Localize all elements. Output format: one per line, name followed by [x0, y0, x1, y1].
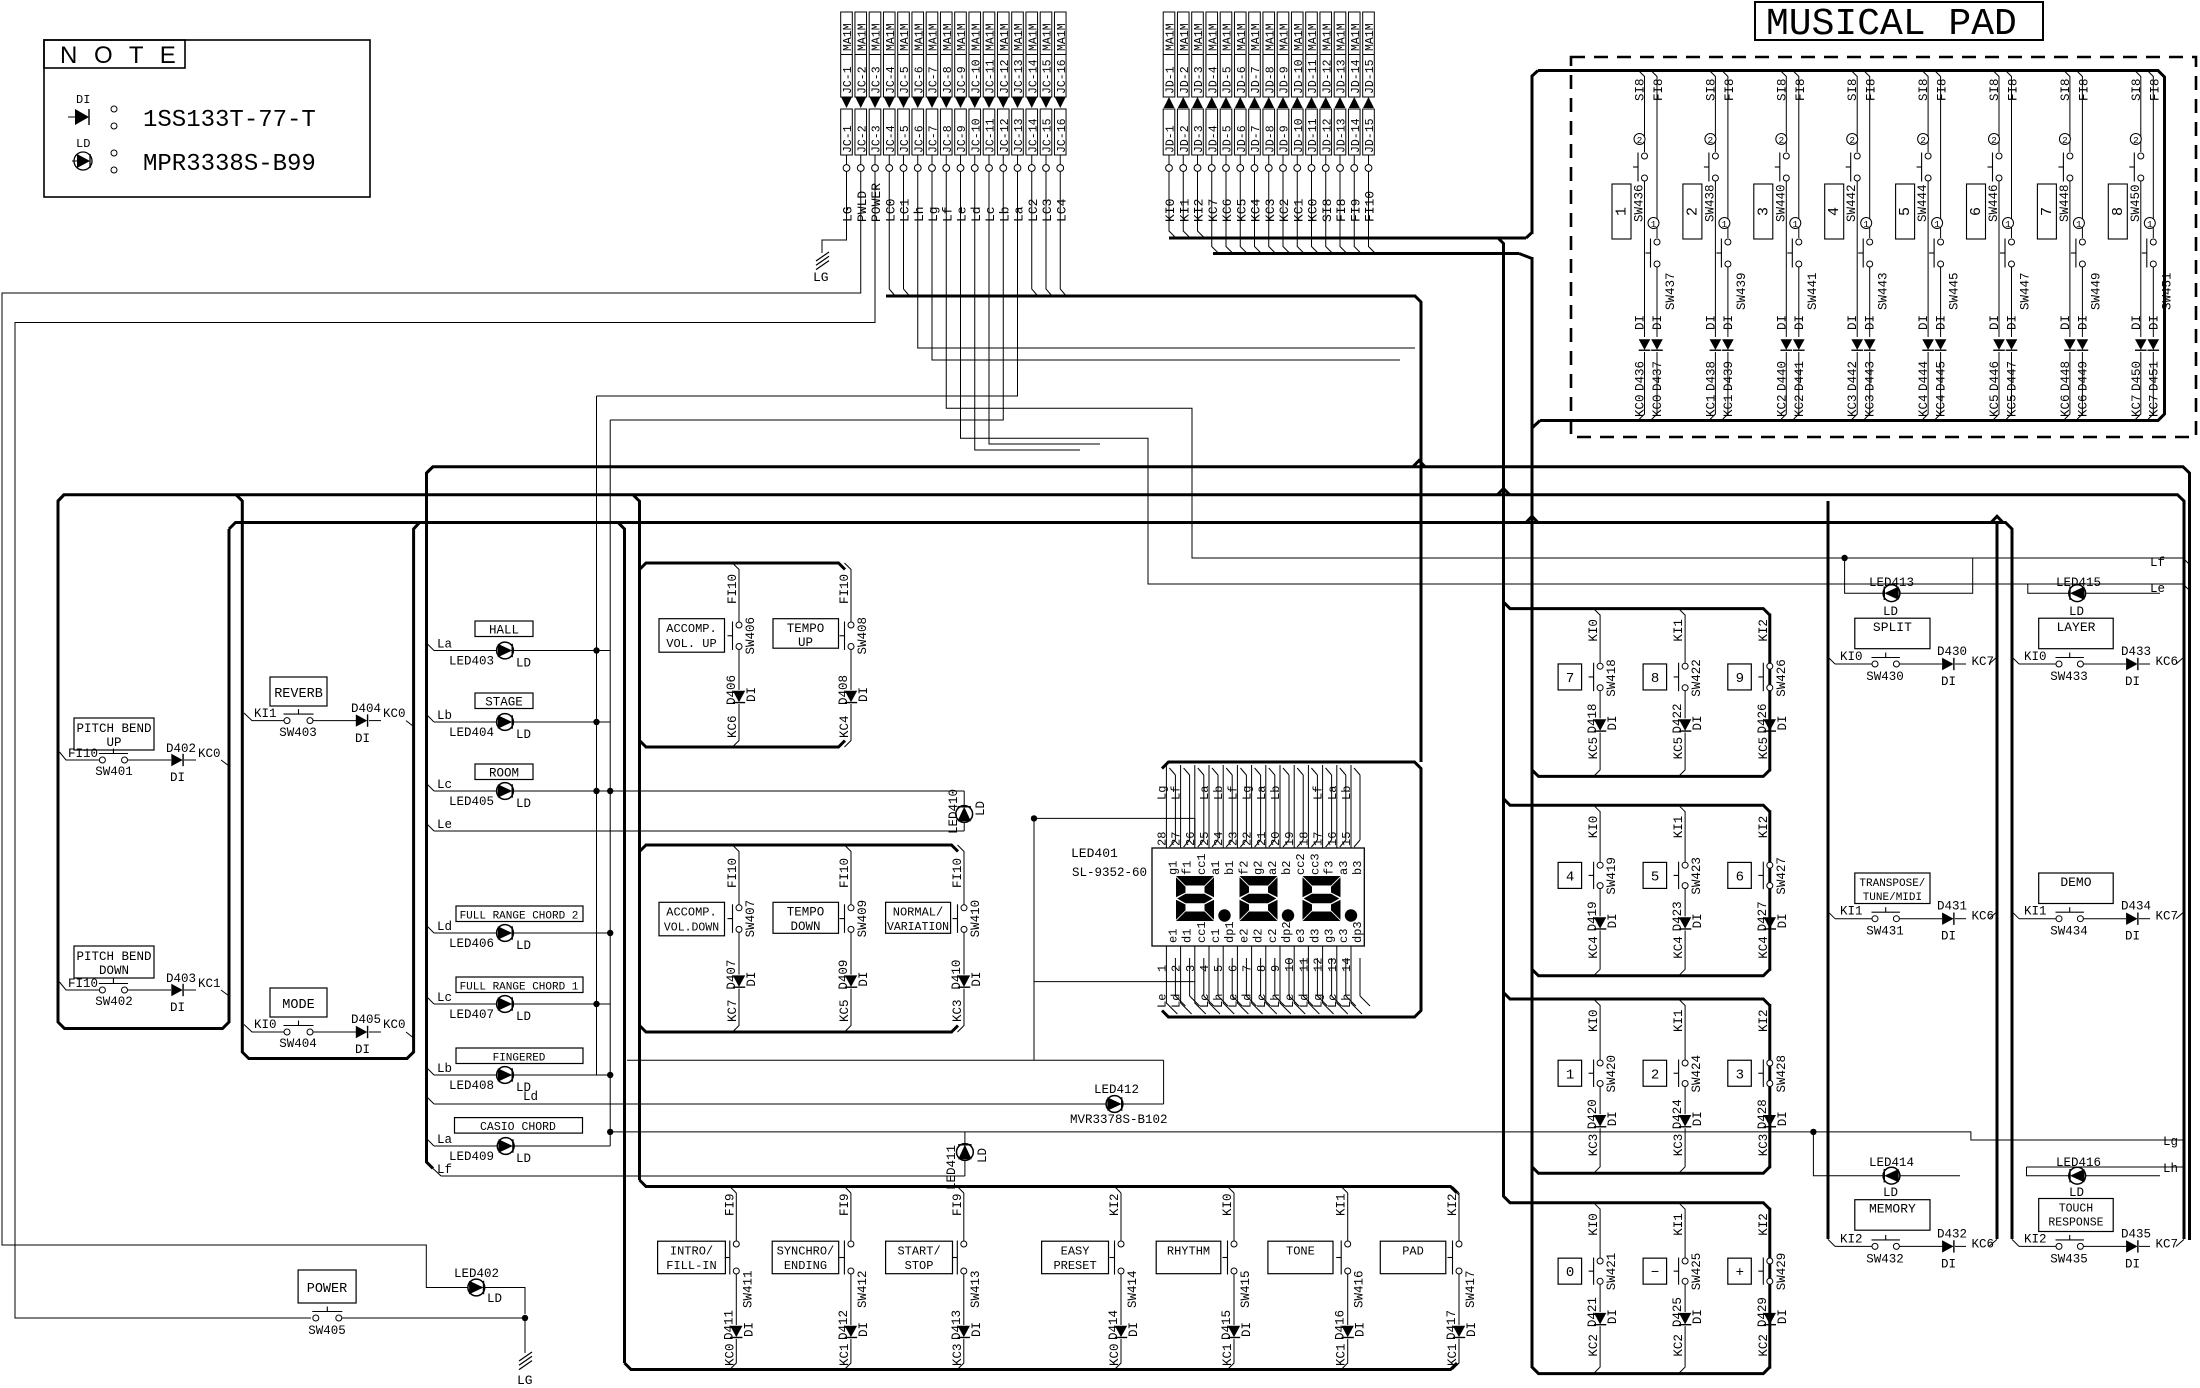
wire KC5 bottom	[1679, 733, 1686, 777]
decimal point 1	[1218, 909, 1230, 921]
svg-text:2: 2	[1778, 135, 1784, 146]
svg-text:JC-14: JC-14	[1027, 59, 1040, 94]
switch SW451	[2150, 239, 2156, 245]
diode D407	[733, 975, 745, 986]
wire KI0 keypad r1	[1594, 609, 1601, 616]
wire SW411 mid	[735, 1274, 737, 1325]
switch SW423	[1682, 862, 1688, 868]
svg-text:JC-16: JC-16	[1056, 118, 1069, 153]
svg-text:KI1: KI1	[1177, 198, 1192, 222]
switch SW415	[1231, 1241, 1237, 1247]
diode D413	[958, 1326, 970, 1337]
LED408	[434, 1074, 497, 1076]
junction dot cc1	[1031, 815, 1037, 821]
svg-text:e3: e3	[1294, 929, 1308, 943]
wire KI1 keypad r1	[1679, 609, 1686, 616]
net label Lc	[427, 784, 435, 792]
pad circled 1 cell 6	[2003, 218, 2014, 229]
switch SW422	[1682, 663, 1688, 669]
up box top edge	[640, 563, 846, 570]
display pin 9 wire	[1280, 946, 1291, 1014]
svg-text:MA1M: MA1M	[970, 23, 983, 51]
svg-text:SI8: SI8	[1320, 199, 1335, 222]
svg-text:DI: DI	[2125, 675, 2140, 689]
wire LED416 right	[2086, 1175, 2161, 1177]
vertical 1034	[1033, 818, 1035, 1060]
reverb label box	[270, 677, 327, 706]
svg-text:1: 1	[2005, 219, 2011, 230]
svg-text:KI0: KI0	[1587, 1009, 1601, 1032]
decimal point 2	[1282, 909, 1294, 921]
svg-text:PITCH BEND: PITCH BEND	[76, 950, 151, 964]
svg-text:MA1M: MA1M	[1279, 23, 1292, 51]
pad circled 2 cell 3	[1776, 134, 1787, 145]
svg-text:DI: DI	[745, 972, 759, 987]
svg-text:D409: D409	[837, 960, 851, 990]
pad circled 1 cell 1	[1648, 218, 1659, 229]
junction dot Lf LED413	[1841, 555, 1847, 561]
switch SW434	[2056, 916, 2062, 922]
wire Le run	[961, 172, 2190, 591]
wire Lh line	[2027, 1166, 2184, 1168]
connector JC-16 MA1M	[1054, 12, 1066, 97]
wire SW425 mid	[1684, 1284, 1686, 1312]
wire LED413 right	[1900, 558, 1973, 593]
svg-text:c3: c3	[1337, 929, 1351, 943]
wire La run	[597, 172, 1018, 397]
pad cell 7 wires SI8/FI8	[2064, 71, 2070, 153]
label box SW431	[1855, 873, 1930, 904]
wire KC1 bottom	[1228, 1339, 1235, 1370]
svg-text:KC7: KC7	[2156, 1237, 2179, 1251]
svg-text:JC-2: JC-2	[856, 66, 869, 94]
svg-text:Ld: Ld	[969, 206, 984, 222]
svg-text:D410: D410	[950, 960, 964, 990]
svg-text:JD-1: JD-1	[1165, 125, 1178, 153]
svg-text:PRESET: PRESET	[1053, 1259, 1096, 1273]
svg-text:3: 3	[1184, 965, 1198, 972]
pin JC-16	[1059, 155, 1061, 165]
label box SW432	[1855, 1200, 1930, 1231]
wire JD-15 to bus	[1369, 172, 1376, 254]
pad cell 6 wires SI8/FI8	[1993, 71, 1999, 153]
svg-text:FI8: FI8	[1334, 199, 1349, 222]
fillet bump V1 on YL2	[1498, 489, 1510, 495]
wire JD-4 to bus	[1212, 172, 1219, 254]
svg-text:JD-11: JD-11	[1307, 59, 1320, 94]
wire Lb run	[610, 172, 1003, 421]
wire SW430 mid	[1900, 663, 1943, 665]
LED409	[434, 1145, 498, 1147]
svg-text:KC3: KC3	[1587, 1134, 1601, 1157]
svg-text:FI8: FI8	[2077, 78, 2091, 101]
display pin 11 wire	[1308, 946, 1319, 1014]
svg-text:FI9: FI9	[951, 1193, 965, 1216]
pad cell 2 wires to bottom bus	[1709, 352, 1716, 421]
full range chord 1 row	[456, 977, 583, 993]
svg-text:KI2: KI2	[1108, 1193, 1122, 1216]
svg-text:D442: D442	[1846, 361, 1860, 391]
key box + r4	[1728, 1258, 1752, 1284]
switch SW414	[1118, 1241, 1124, 1247]
junction dot Lg LED414	[1810, 1129, 1816, 1135]
wire KC3 bottom	[1679, 1128, 1686, 1173]
wire Ld LED412 line	[427, 1097, 435, 1105]
svg-text:MA1M: MA1M	[942, 23, 955, 51]
pin JD-5	[1225, 155, 1227, 165]
svg-text:JC-3: JC-3	[871, 125, 884, 153]
svg-text:D448: D448	[2059, 361, 2073, 391]
svg-text:Lg: Lg	[1155, 786, 1169, 800]
svg-text:TUNE/MIDI: TUNE/MIDI	[1863, 892, 1922, 904]
pad number box 8	[2108, 184, 2127, 239]
svg-text:SW408: SW408	[856, 617, 870, 655]
svg-text:KC0: KC0	[1108, 1343, 1122, 1366]
wire KC6 bottom	[733, 704, 740, 747]
pad circled 1 cell 3	[1790, 218, 1801, 229]
label box SW412	[772, 1241, 839, 1274]
power label box	[298, 1270, 356, 1303]
wire LED414 right	[1900, 1175, 1960, 1177]
pitch bend down label box	[74, 946, 154, 978]
keypad box 2 right edge	[1768, 810, 1771, 971]
pad circled 2 cell 4	[1847, 134, 1858, 145]
pin JD-12	[1325, 155, 1327, 165]
svg-text:KI1: KI1	[1672, 1009, 1686, 1032]
svg-text:KI0: KI0	[2024, 650, 2047, 664]
svg-text:FULL RANGE CHORD 1: FULL RANGE CHORD 1	[460, 982, 579, 994]
wire KC5 bottom	[845, 989, 852, 1032]
pad circled 1 cell 7	[2073, 218, 2084, 229]
wire SW419 mid	[1599, 889, 1601, 917]
connector JC-6 MA1M	[912, 12, 924, 97]
svg-text:SW429: SW429	[1775, 1253, 1789, 1291]
svg-text:SI8: SI8	[2130, 78, 2144, 101]
svg-text:SW427: SW427	[1775, 857, 1789, 895]
wire KI0 SW430	[1828, 657, 1835, 664]
pad number box 5	[1896, 184, 1915, 239]
svg-text:b3: b3	[1351, 861, 1365, 875]
svg-text:Lh: Lh	[2163, 1162, 2178, 1176]
svg-text:Lc: Lc	[1198, 994, 1212, 1008]
svg-text:11: 11	[1297, 958, 1311, 972]
keypad box 3 top edge	[1504, 993, 1770, 1006]
room row	[475, 764, 533, 780]
svg-text:SW415: SW415	[1239, 1270, 1253, 1308]
svg-text:JC-10: JC-10	[970, 59, 983, 94]
svg-text:D431: D431	[1937, 900, 1967, 914]
connector JD-10 MA1M	[1291, 12, 1303, 97]
svg-text:KC1: KC1	[198, 977, 221, 991]
svg-text:TRANSPOSE/: TRANSPOSE/	[1859, 878, 1925, 890]
net label Lc	[427, 997, 435, 1005]
pad circled 1 cell 8	[2144, 218, 2155, 229]
svg-text:KC0: KC0	[1651, 394, 1665, 417]
junction dot power	[522, 1315, 528, 1321]
svg-text:D438: D438	[1704, 361, 1718, 391]
svg-text:KC4: KC4	[1917, 394, 1931, 417]
svg-text:LG: LG	[841, 206, 856, 222]
wire LED415 left	[2028, 584, 2069, 593]
svg-text:POWER: POWER	[307, 1282, 348, 1297]
wire SW409 mid	[850, 932, 852, 974]
svg-text:KC1: KC1	[1704, 394, 1718, 417]
switch SW439	[1725, 239, 1731, 245]
svg-text:KC3: KC3	[1263, 199, 1278, 222]
svg-text:SW439: SW439	[1735, 272, 1749, 310]
svg-text:D422: D422	[1671, 703, 1685, 733]
svg-text:KC4: KC4	[1672, 936, 1686, 959]
svg-text:19: 19	[1283, 832, 1297, 846]
wire KI2 SW414	[1115, 1187, 1122, 1194]
svg-text:D421: D421	[1586, 1297, 1600, 1327]
svg-text:KC2: KC2	[1757, 1334, 1771, 1357]
wire JD-10 to bus	[1297, 172, 1304, 254]
svg-text:27: 27	[1170, 832, 1184, 846]
svg-text:MA1M: MA1M	[1307, 23, 1320, 51]
wire KC3 bottom	[957, 1339, 964, 1370]
svg-text:LD: LD	[516, 1152, 531, 1166]
svg-text:KC5: KC5	[1587, 737, 1601, 760]
svg-text:DI: DI	[1606, 1111, 1620, 1126]
svg-text:8: 8	[1651, 671, 1659, 687]
bus YL3	[229, 523, 2012, 1240]
wire JD-3 to bus	[1198, 172, 1205, 239]
wire KI0 SW433	[2012, 657, 2019, 664]
svg-text:cc2: cc2	[1294, 853, 1308, 875]
svg-text:KC3: KC3	[1864, 394, 1878, 417]
connector JC-1 MA1M	[841, 12, 853, 97]
wire KC3 bottom	[958, 989, 965, 1032]
key box 5 r2	[1643, 862, 1667, 888]
pin JC-13	[1017, 155, 1019, 165]
net label Lb	[427, 715, 435, 723]
diode D429	[1764, 1313, 1776, 1324]
wire SW409 top	[845, 845, 852, 905]
svg-text:DI: DI	[2125, 1257, 2140, 1271]
label box SW414	[1042, 1241, 1109, 1274]
pad circled 2 cell 1	[1634, 134, 1645, 145]
wire SW420 mid	[1599, 1087, 1601, 1115]
svg-text:8: 8	[1255, 965, 1269, 972]
svg-text:KC6: KC6	[2156, 655, 2179, 669]
bus V1 vertical	[1502, 243, 1505, 1197]
svg-text:Le: Le	[437, 818, 452, 832]
svg-text:JC-11: JC-11	[985, 59, 998, 94]
svg-text:JD-13: JD-13	[1336, 59, 1349, 94]
svg-text:DI: DI	[2130, 315, 2144, 330]
pin JC-6	[917, 155, 919, 165]
svg-text:DI: DI	[1240, 1322, 1254, 1337]
switch SW404	[284, 1029, 290, 1035]
svg-text:D414: D414	[1107, 1310, 1121, 1340]
svg-text:SI8: SI8	[1988, 78, 2002, 101]
wire PWLD	[2, 172, 861, 1288]
svg-text:JC-7: JC-7	[928, 125, 941, 153]
svg-text:JC-12: JC-12	[999, 59, 1012, 94]
wire SW424 mid	[1684, 1087, 1686, 1115]
svg-text:D440: D440	[1775, 361, 1789, 391]
pin JD-4	[1211, 155, 1213, 165]
key box − r4	[1643, 1258, 1667, 1284]
svg-text:MODE: MODE	[282, 998, 314, 1013]
hall row	[475, 621, 533, 637]
label box SW430	[1855, 618, 1930, 649]
connector JD-13 MA1M	[1334, 12, 1346, 97]
connector JC-13 MA1M	[1012, 12, 1024, 97]
wire KI2 keypad r1	[1763, 609, 1770, 616]
net label La	[427, 643, 435, 651]
display pin 5 wire	[1223, 946, 1234, 1014]
svg-text:Le: Le	[1155, 994, 1169, 1008]
svg-text:UP: UP	[106, 736, 121, 750]
keypad box 2 top edge	[1504, 799, 1770, 812]
svg-text:6: 6	[1736, 869, 1744, 885]
keypad box 2 bottom edge	[1532, 969, 1770, 976]
svg-text:KC5: KC5	[1672, 737, 1686, 760]
svg-text:FI8: FI8	[2007, 78, 2021, 101]
svg-text:SW425: SW425	[1690, 1253, 1704, 1291]
svg-text:JD-9: JD-9	[1279, 125, 1292, 153]
svg-text:MA1M: MA1M	[856, 23, 869, 51]
wire FI9 SW413	[957, 1187, 964, 1194]
svg-text:DI: DI	[1776, 715, 1790, 730]
wire LED414 left	[1813, 1132, 1883, 1176]
svg-text:SW406: SW406	[744, 617, 758, 655]
svg-text:SW416: SW416	[1353, 1270, 1367, 1308]
svg-text:JC-1: JC-1	[842, 66, 855, 94]
wire SW407 mid	[738, 932, 740, 974]
svg-text:24: 24	[1212, 832, 1226, 846]
svg-text:JC-11: JC-11	[985, 118, 998, 153]
svg-text:SW437: SW437	[1664, 272, 1678, 310]
svg-text:D419: D419	[1586, 901, 1600, 931]
svg-text:2: 2	[2133, 135, 2139, 146]
switch SW408	[848, 622, 854, 628]
svg-text:JC-12: JC-12	[999, 118, 1012, 153]
svg-text:SI8: SI8	[1846, 78, 1860, 101]
diode D420	[1594, 1115, 1606, 1126]
pad cell 4 wires to bottom bus	[1851, 352, 1858, 421]
up box bottom edge	[640, 741, 846, 748]
svg-text:DOWN: DOWN	[790, 920, 820, 934]
svg-text:UP: UP	[798, 636, 813, 650]
svg-text:c1: c1	[1209, 929, 1223, 943]
bus K2 (KC/SI/FI lines)	[1213, 252, 1519, 255]
wire KI1 SW416	[1341, 1187, 1348, 1194]
svg-text:SW428: SW428	[1775, 1055, 1789, 1093]
wire KC2 bottom	[1679, 1326, 1686, 1374]
note box frame	[44, 40, 370, 197]
svg-text:cc1: cc1	[1195, 921, 1209, 943]
box C right edge bottom corner	[625, 1363, 1458, 1370]
wire KI2 keypad r2	[1763, 805, 1770, 812]
svg-text:D430: D430	[1937, 645, 1967, 659]
fillet bump V2 on YL3	[1526, 516, 1538, 522]
pad circled 2 cell 6	[1989, 134, 2000, 145]
svg-text:D420: D420	[1586, 1099, 1600, 1129]
svg-text:DI: DI	[1941, 675, 1956, 689]
svg-text:KC2: KC2	[1793, 394, 1807, 417]
svg-text:DI: DI	[355, 732, 370, 746]
svg-text:D436: D436	[1634, 361, 1648, 391]
svg-text:e2: e2	[1237, 929, 1251, 943]
svg-text:KI1: KI1	[2024, 905, 2047, 919]
svg-text:EASY: EASY	[1061, 1245, 1090, 1259]
pin JC-15	[1045, 155, 1047, 165]
display top bus	[1162, 762, 1421, 1017]
svg-text:9: 9	[1269, 965, 1283, 972]
svg-text:DI: DI	[170, 771, 185, 785]
svg-text:Lh: Lh	[1269, 994, 1283, 1008]
wire KI0 keypad r3	[1594, 999, 1601, 1006]
svg-text:2: 2	[1920, 135, 1926, 146]
svg-text:9: 9	[1736, 671, 1744, 687]
key box 9 r1	[1728, 664, 1752, 690]
connector JD-11 MA1M	[1306, 12, 1318, 97]
diode D416	[1342, 1326, 1354, 1337]
svg-text:JC-14: JC-14	[1027, 118, 1040, 153]
svg-text:SW443: SW443	[1877, 272, 1891, 310]
wire KI0 SW404	[244, 1025, 284, 1033]
display pin 23 wire	[1236, 765, 1238, 848]
LED412	[1106, 1096, 1123, 1113]
svg-text:KI2: KI2	[1757, 816, 1771, 839]
connector JD-3 MA1M	[1192, 12, 1204, 97]
display pin 8 wire	[1266, 946, 1277, 1014]
pin JC-3	[874, 155, 876, 165]
svg-text:MA1M: MA1M	[1236, 23, 1249, 51]
switch SW403	[284, 718, 290, 724]
svg-text:+: +	[1736, 1265, 1744, 1281]
display pin 24 wire	[1222, 765, 1224, 848]
wire Lg run	[932, 172, 1400, 361]
svg-text:LD: LD	[516, 657, 531, 671]
svg-text:D407: D407	[725, 960, 739, 990]
svg-text:5: 5	[1212, 965, 1226, 972]
accomp vol down label box	[659, 902, 725, 936]
svg-text:FULL RANGE CHORD 2: FULL RANGE CHORD 2	[460, 911, 579, 923]
svg-text:LD: LD	[516, 797, 531, 811]
svg-text:D408: D408	[837, 675, 851, 705]
svg-text:DI: DI	[1793, 315, 1807, 330]
svg-text:JD-7: JD-7	[1250, 66, 1263, 94]
svg-text:DI: DI	[745, 687, 759, 702]
casio chord row	[455, 1118, 583, 1134]
svg-text:SPLIT: SPLIT	[1873, 620, 1912, 635]
wire KC5 bottom	[1594, 733, 1601, 777]
svg-text:FI10: FI10	[838, 858, 852, 888]
svg-text:MA1M: MA1M	[913, 23, 926, 51]
pin JC-8	[945, 155, 947, 165]
svg-text:SI8: SI8	[2059, 78, 2073, 101]
svg-text:SW407: SW407	[744, 900, 758, 938]
pad circled 2 cell 2	[1705, 134, 1716, 145]
svg-text:JD-12: JD-12	[1321, 118, 1334, 153]
svg-text:KC4: KC4	[1757, 936, 1771, 959]
right column left box right edge	[1996, 523, 1999, 1240]
svg-text:KC5: KC5	[1988, 394, 2002, 417]
switch SW418	[1597, 663, 1603, 669]
svg-text:Lf: Lf	[940, 206, 955, 222]
svg-text:D411: D411	[722, 1310, 736, 1340]
svg-text:cc3: cc3	[1308, 853, 1322, 875]
svg-text:JD-15: JD-15	[1364, 59, 1377, 94]
svg-text:VOL.DOWN: VOL.DOWN	[664, 922, 719, 935]
svg-text:SW417: SW417	[1464, 1270, 1478, 1308]
svg-text:Ld: Ld	[437, 920, 452, 934]
svg-text:7: 7	[2039, 207, 2056, 216]
